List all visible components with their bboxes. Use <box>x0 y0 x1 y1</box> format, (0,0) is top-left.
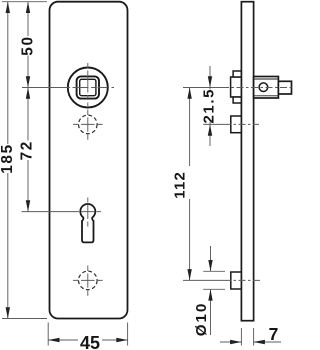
spindle block inner bottom line <box>254 95 278 97</box>
dimension 185 label <box>1 144 15 173</box>
dimension 112 arrow up <box>187 88 191 99</box>
dimension 72 line <box>27 88 29 212</box>
spindle centerline side view <box>183 87 222 89</box>
svg-text:50: 50 <box>20 35 37 55</box>
lower screw hole horizontal crosshair <box>73 279 103 281</box>
rosette outer square <box>77 76 99 98</box>
spindle square tip <box>278 81 291 94</box>
dimension 45 extension line right <box>127 323 129 346</box>
keyhole horizontal crosshair <box>75 211 102 213</box>
upper screw hole (hidden) <box>79 115 98 134</box>
dimension 50 arrow down <box>26 76 30 87</box>
extension line spindle centerline <box>22 87 67 89</box>
rosette vertical centerline <box>87 63 89 106</box>
dimension 7 left line and arrow <box>220 341 241 343</box>
dimension diameter 10 upper arrow (points down) <box>210 246 212 271</box>
dimension diameter 10 extension line bottom <box>203 288 225 290</box>
dimension 185 arrow up <box>6 2 10 13</box>
dimension 45 line <box>48 339 127 341</box>
spindle bushing spool bottom cap <box>233 97 241 103</box>
dimension 21.5 line <box>209 66 211 146</box>
spindle block screw circle <box>259 83 268 92</box>
svg-text:45: 45 <box>80 333 100 350</box>
dimension 112 label <box>179 166 192 199</box>
dimension 45 label <box>78 334 102 346</box>
dimension 50 label <box>22 36 36 56</box>
rosette horizontal centerline <box>66 87 118 89</box>
svg-text:7: 7 <box>269 324 279 344</box>
extension line keyhole centerline <box>22 211 76 213</box>
upper screw hole vertical crosshair <box>87 110 89 140</box>
dimension 185 arrow down <box>6 307 10 318</box>
dimension 7 extension line left <box>240 328 242 346</box>
dimension diameter 10 extension line top <box>203 270 225 272</box>
dimension 50 line <box>27 2 29 88</box>
dimension 72 arrow down <box>26 200 30 211</box>
svg-text:Ø10: Ø10 <box>193 302 210 336</box>
spindle block inner top line <box>254 78 278 80</box>
extension line bottom of plate <box>2 318 47 320</box>
keyhole vertical crosshair <box>87 198 89 227</box>
svg-text:21.5: 21.5 <box>200 88 217 124</box>
upper screw hole horizontal crosshair <box>73 123 103 125</box>
dimension diameter 10 lower arrow line (points up) <box>210 289 212 335</box>
dimension 72 arrow up <box>26 88 30 99</box>
rosette inner square (spindle hole) <box>80 79 96 95</box>
upper screw boss side view <box>231 116 242 133</box>
dimension 112 arrow down <box>187 269 191 280</box>
upper boss centerline <box>203 123 224 125</box>
dimension 21.5 label <box>203 90 216 123</box>
dimension 50 arrow up <box>26 2 30 13</box>
spindle bushing spool middle (left of bar) <box>231 77 242 97</box>
lower screw hole (hidden) <box>79 271 98 290</box>
rosette circle <box>68 68 108 108</box>
svg-text:72: 72 <box>19 140 36 160</box>
lower screw hole vertical crosshair <box>87 266 89 296</box>
dimension 45 arrow right <box>116 338 127 342</box>
keyhole <box>80 204 95 242</box>
dimension 72 label <box>21 141 35 161</box>
side view plate bar <box>241 2 253 321</box>
spindle block <box>254 77 279 99</box>
spindle bushing spool top cap <box>233 71 241 77</box>
dimension 45 extension line left <box>47 323 49 346</box>
dimension 7 extension line right <box>253 328 255 346</box>
extension line top of plate <box>2 1 47 3</box>
dimension 7 right line and arrow <box>254 341 281 343</box>
lower screw boss side view <box>231 272 242 289</box>
svg-text:185: 185 <box>0 143 16 174</box>
dimension 45 arrow left <box>48 338 59 342</box>
dimension 185 line <box>7 2 9 319</box>
lower boss centerline <box>183 279 224 281</box>
dimension 21.5 arrow lower (points up to boss centerline) <box>208 124 212 135</box>
svg-text:112: 112 <box>171 171 188 199</box>
dimension 21.5 arrow upper (points down to spindle centerline) <box>208 76 212 87</box>
dimension 112 line <box>189 88 191 281</box>
front view plate outline <box>50 2 128 319</box>
